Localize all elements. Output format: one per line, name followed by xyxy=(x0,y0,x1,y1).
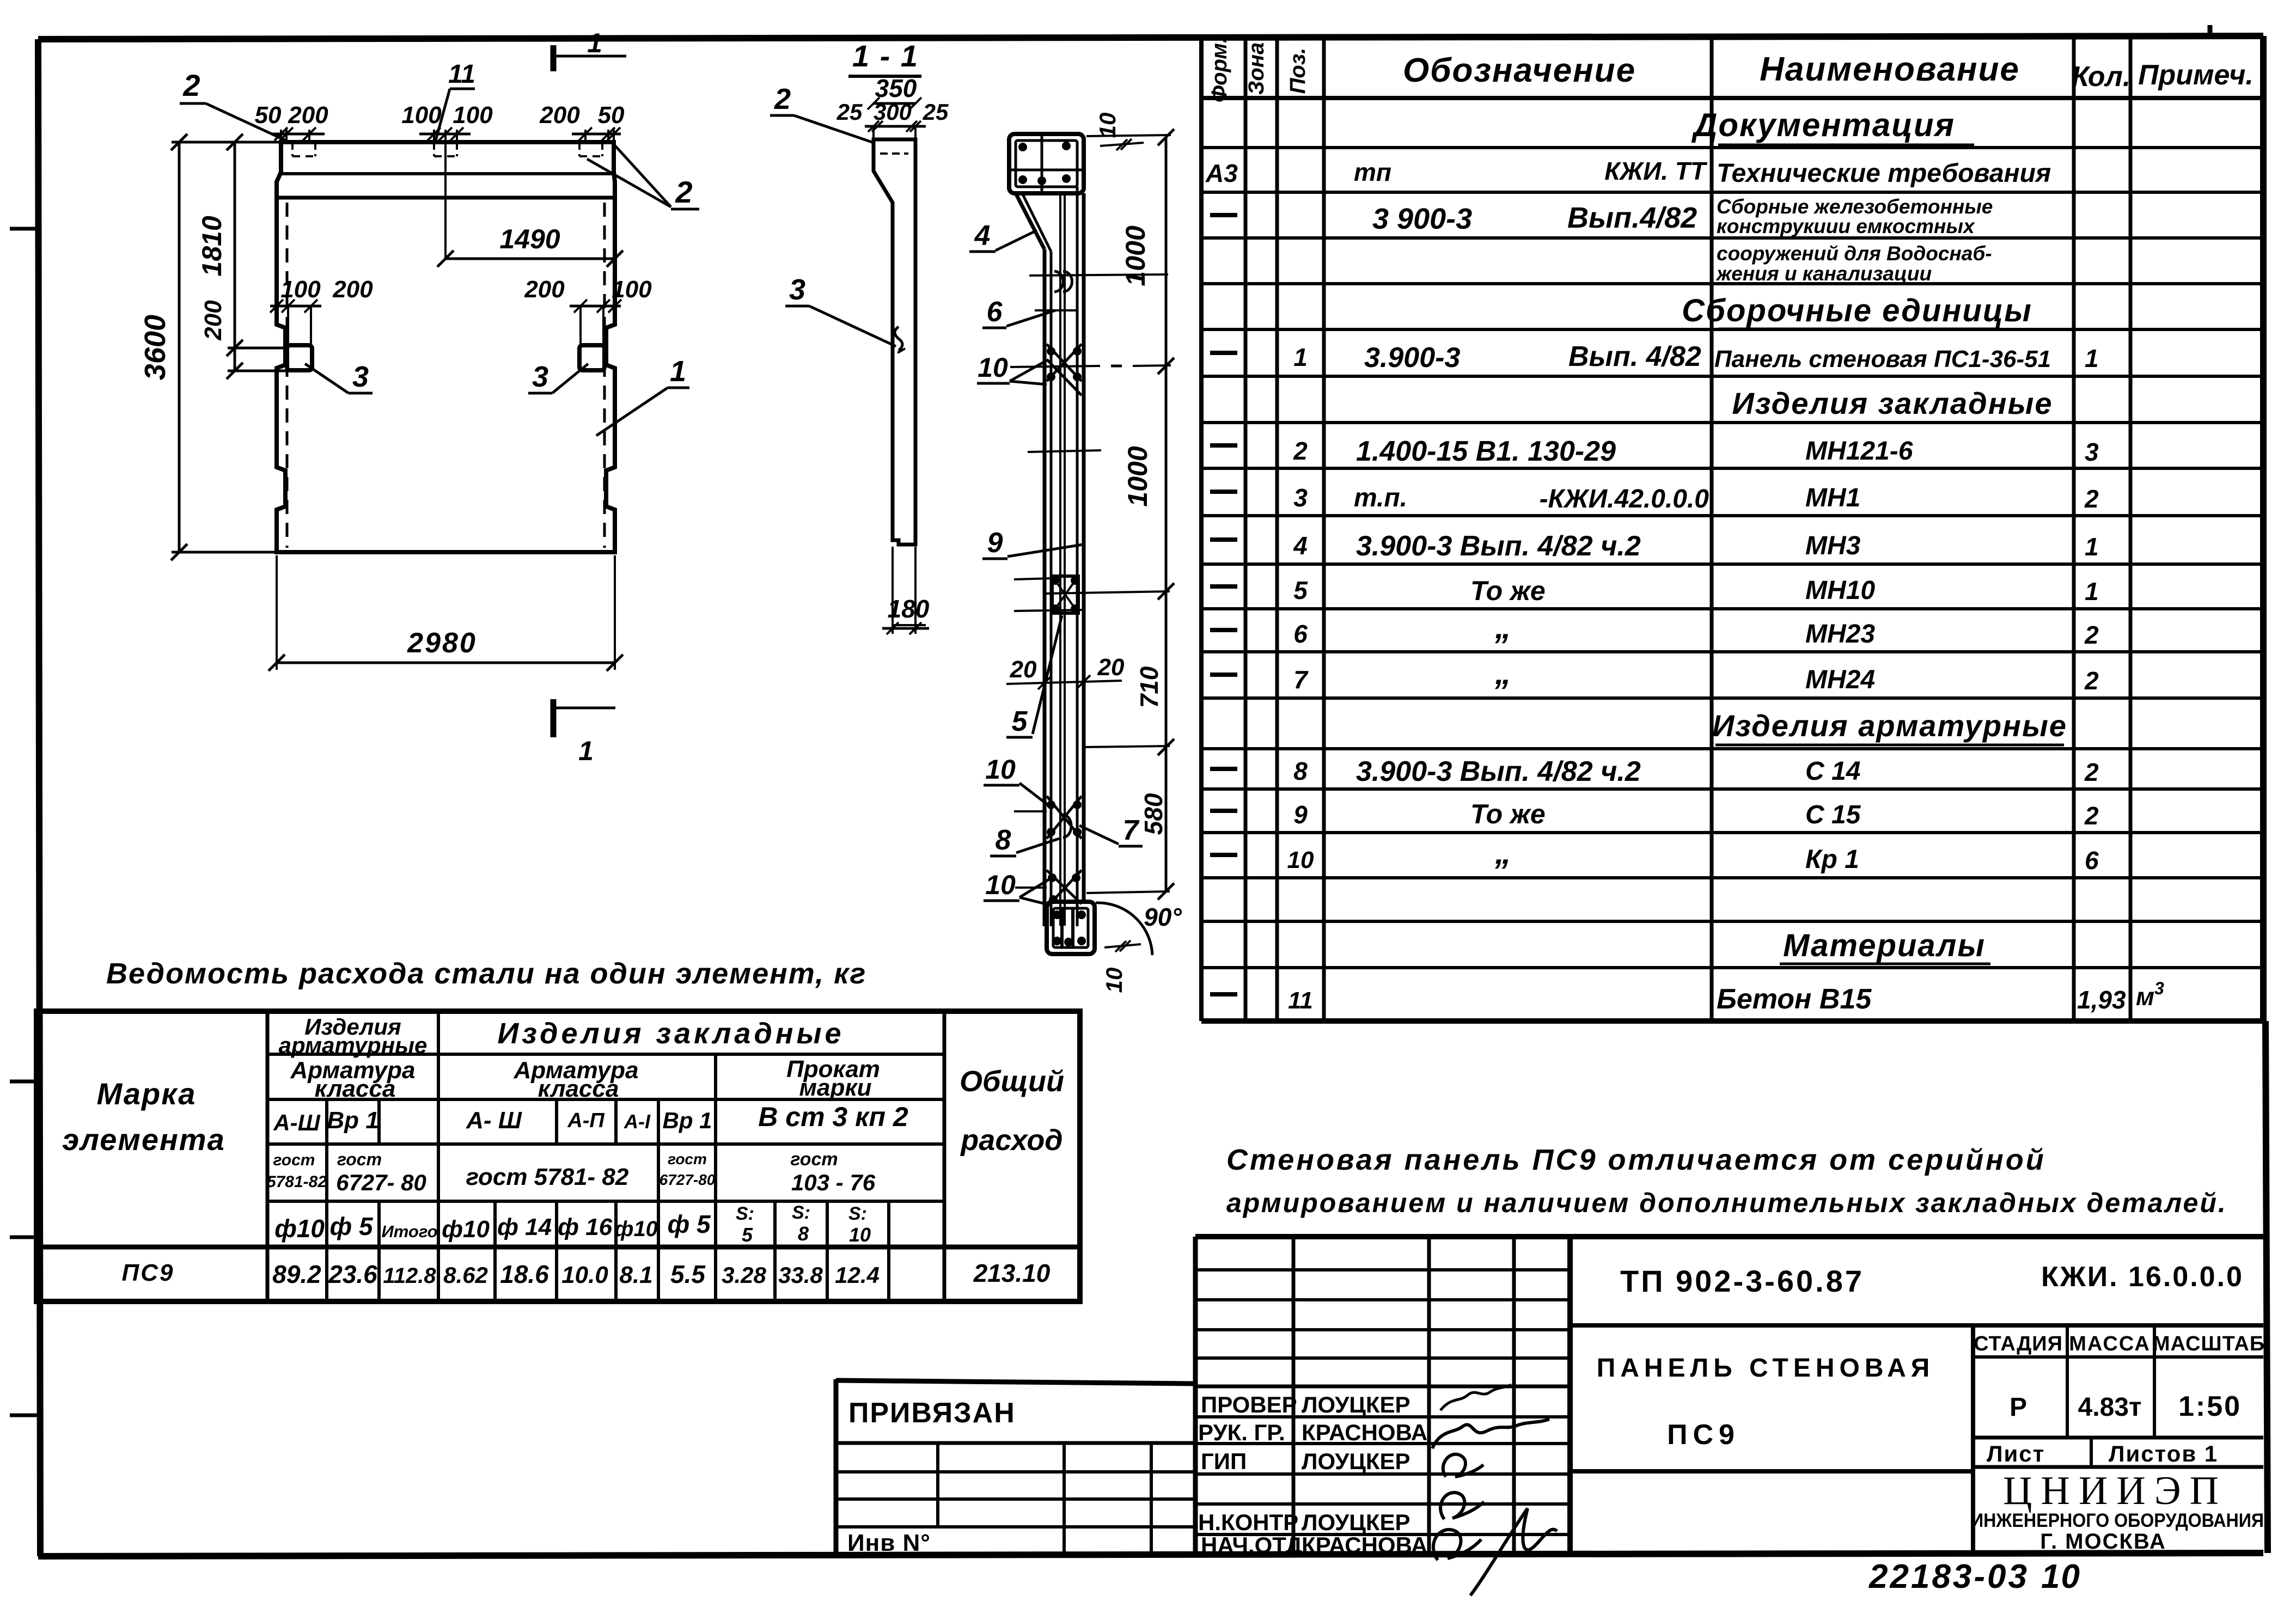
label 2 top-left with leader xyxy=(180,68,287,141)
svg-text:112.8: 112.8 xyxy=(383,1264,436,1288)
spec row: 3 900-3 Вып.4/82 Сборные железобетонные xyxy=(1210,195,1993,237)
svg-text:ф 5: ф 5 xyxy=(329,1212,373,1240)
svg-text:1490: 1490 xyxy=(499,224,560,254)
dimension 2980 xyxy=(268,555,623,671)
svg-text:S:: S: xyxy=(736,1203,754,1224)
svg-text:Сборные железобетонные: Сборные железобетонные xyxy=(1717,195,1993,218)
svg-text:„: „ xyxy=(1494,834,1511,871)
spec row 6: МН23 xyxy=(1210,609,2099,649)
svg-text:2: 2 xyxy=(182,68,200,102)
spec row: Изделия закладные section header xyxy=(1732,386,2053,420)
spec row 1: Панель стеновая ПС1-36-51 xyxy=(1210,341,2099,374)
svg-text:Бетон В15: Бетон В15 xyxy=(1717,983,1872,1015)
svg-text:5781-82: 5781-82 xyxy=(267,1173,327,1191)
svg-text:КЖИ. ТТ: КЖИ. ТТ xyxy=(1604,157,1708,185)
spec row: Изделия арматурные section header xyxy=(1712,708,2067,745)
svg-text:3600: 3600 xyxy=(139,315,172,380)
section mark 1 (bottom) xyxy=(553,699,615,766)
specification table grid xyxy=(1201,36,2263,1021)
svg-text:8: 8 xyxy=(798,1222,809,1245)
svg-text:1 - 1: 1 - 1 xyxy=(852,39,919,73)
svg-text:гост: гост xyxy=(273,1151,315,1169)
svg-text:6727-80: 6727-80 xyxy=(660,1171,716,1188)
centerline at first 1000 tick xyxy=(1010,365,1171,367)
dimensions 25 300 25 xyxy=(836,99,949,139)
svg-text:Примеч.: Примеч. xyxy=(2138,59,2254,91)
svg-text:3: 3 xyxy=(532,360,548,393)
svg-text:Г. МОСКВА: Г. МОСКВА xyxy=(2040,1530,2166,1554)
svg-text:МН24: МН24 xyxy=(1805,665,1875,694)
spec row 3: МН1 xyxy=(1210,484,2099,513)
svg-text:22183-03: 22183-03 xyxy=(1868,1558,2029,1595)
cross ties поз.10 lower cluster xyxy=(1015,870,1082,905)
svg-text:Изделия закладные: Изделия закладные xyxy=(497,1017,844,1050)
top dimension chain 50 200 / 100 100 / 200 50 xyxy=(255,102,625,142)
svg-text:213.10: 213.10 xyxy=(973,1259,1051,1287)
section 1-1 profile xyxy=(874,139,915,545)
svg-text:7: 7 xyxy=(1123,815,1140,846)
svg-text:Общий: Общий xyxy=(960,1065,1064,1098)
svg-text:100: 100 xyxy=(401,102,442,129)
svg-text:ЦНИИЭП: ЦНИИЭП xyxy=(2003,1469,2227,1513)
spec row: Сборочные единицы section header xyxy=(1682,293,2032,329)
svg-text:Листов 1: Листов 1 xyxy=(2109,1441,2218,1466)
svg-text:ф 5: ф 5 xyxy=(667,1210,711,1238)
svg-text:5.5: 5.5 xyxy=(670,1260,706,1288)
svg-text:гост 5781- 82: гост 5781- 82 xyxy=(466,1164,629,1190)
cross ties поз.10 middle cluster xyxy=(1014,796,1082,839)
elevation dimension line right xyxy=(1084,129,1174,900)
svg-text:Р: Р xyxy=(2010,1393,2027,1422)
svg-text:ф 16: ф 16 xyxy=(558,1214,613,1240)
svg-text:2: 2 xyxy=(675,175,692,209)
svg-text:Наименование: Наименование xyxy=(1760,51,2020,88)
reinforcement elevation: taper and shaft xyxy=(1016,187,1084,926)
svg-text:3: 3 xyxy=(2154,979,2164,998)
svg-text:33.8: 33.8 xyxy=(778,1262,823,1288)
svg-text:7: 7 xyxy=(1293,665,1309,694)
svg-text:11: 11 xyxy=(448,60,475,89)
svg-text:2: 2 xyxy=(2084,758,2099,786)
label 11 with leader xyxy=(436,60,475,140)
svg-text:5: 5 xyxy=(1012,706,1028,737)
label 7 with leader xyxy=(1079,815,1143,846)
svg-text:10: 10 xyxy=(1095,113,1120,138)
svg-text:МАСШТАБ: МАСШТАБ xyxy=(2153,1332,2265,1355)
svg-text:10.0: 10.0 xyxy=(561,1262,608,1288)
svg-text:Вр 1: Вр 1 xyxy=(662,1108,712,1133)
dimension 3600 xyxy=(139,134,281,560)
title block: привязан box xyxy=(836,1379,1195,1556)
svg-text:тп: тп xyxy=(1354,158,1391,186)
svg-text:Обозначение: Обозначение xyxy=(1403,52,1636,89)
svg-text:ПС9: ПС9 xyxy=(1667,1419,1740,1451)
svg-text:ПАНЕЛЬ СТЕНОВАЯ: ПАНЕЛЬ СТЕНОВАЯ xyxy=(1597,1354,1935,1383)
svg-text:Сборочные единицы: Сборочные единицы xyxy=(1682,293,2032,328)
svg-text:1,93: 1,93 xyxy=(2077,986,2126,1014)
svg-text:сооружений для Водоснаб-: сооружений для Водоснаб- xyxy=(1717,242,1992,265)
svg-text:ф10: ф10 xyxy=(442,1216,490,1243)
svg-text:23.6: 23.6 xyxy=(328,1260,377,1288)
label 2 section with leader xyxy=(770,83,874,143)
svg-text:2: 2 xyxy=(2084,802,2099,830)
svg-text:ТП 902-3-60.87: ТП 902-3-60.87 xyxy=(1620,1264,1864,1298)
svg-text:200: 200 xyxy=(288,102,328,129)
svg-text:То же: То же xyxy=(1470,576,1546,606)
svg-text:8.1: 8.1 xyxy=(619,1262,652,1288)
svg-text:6727- 80: 6727- 80 xyxy=(336,1170,426,1195)
spec row: Технические требования xyxy=(1205,157,2051,188)
svg-text:50: 50 xyxy=(598,102,625,129)
svg-text:марки: марки xyxy=(799,1074,871,1101)
title block: лист / листов xyxy=(1973,1438,2263,1467)
steel table grid xyxy=(36,1011,1080,1301)
svg-text:А-П: А-П xyxy=(567,1109,604,1132)
svg-text:расход: расход xyxy=(960,1124,1062,1157)
svg-text:1: 1 xyxy=(2085,344,2099,372)
embedded plates on top edge (dashed) xyxy=(292,143,602,156)
svg-text:3: 3 xyxy=(2085,438,2099,466)
title block: signatures (handwritten squiggles) xyxy=(1432,1385,1557,1595)
svg-text:100: 100 xyxy=(280,276,321,303)
label 8 with leader xyxy=(990,824,1059,856)
dimension 1490 xyxy=(437,142,623,267)
svg-text:КЖИ. 16.0.0.0: КЖИ. 16.0.0.0 xyxy=(2041,1261,2244,1293)
svg-text:5: 5 xyxy=(1293,576,1308,604)
svg-text:гост: гост xyxy=(668,1151,707,1167)
spec row 10: Кр1 xyxy=(1210,834,2099,875)
svg-text:жения и канализации: жения и канализации xyxy=(1715,262,1932,285)
svg-text:ПРИВЯЗАН: ПРИВЯЗАН xyxy=(848,1397,1016,1429)
svg-text:100: 100 xyxy=(612,276,652,303)
svg-text:МН23: МН23 xyxy=(1805,620,1875,649)
svg-text:6: 6 xyxy=(987,296,1003,328)
svg-text:3: 3 xyxy=(789,273,805,306)
title block: panel name xyxy=(1570,1325,1973,1556)
svg-text:ф10: ф10 xyxy=(274,1214,325,1243)
label 10 third xyxy=(984,870,1050,905)
svg-text:6: 6 xyxy=(2085,846,2099,875)
inventory number bottom xyxy=(1868,1558,2081,1595)
steel table headers xyxy=(62,1014,1064,1246)
dimension 350 xyxy=(868,74,921,109)
svg-text:90°: 90° xyxy=(1144,903,1182,931)
svg-text:ф10: ф10 xyxy=(614,1217,658,1241)
svg-text:180: 180 xyxy=(888,595,930,623)
svg-text:200: 200 xyxy=(332,276,373,303)
spec row 2: МН121-6 xyxy=(1210,436,2099,467)
svg-text:10: 10 xyxy=(985,870,1016,900)
angle 90 deg xyxy=(1096,903,1182,955)
svg-text:20: 20 xyxy=(1097,654,1125,681)
svg-text:1000: 1000 xyxy=(1120,225,1151,286)
svg-text:300: 300 xyxy=(874,99,912,125)
svg-text:-КЖИ.42.0.0.0: -КЖИ.42.0.0.0 xyxy=(1540,485,1709,513)
dim 10 bottom xyxy=(1101,940,1141,993)
svg-text:200: 200 xyxy=(200,300,227,341)
svg-text:S:: S: xyxy=(848,1203,867,1224)
svg-text:2: 2 xyxy=(2084,667,2099,695)
label 2 right with leaders xyxy=(587,145,699,209)
svg-text:89.2: 89.2 xyxy=(272,1260,321,1288)
svg-text:Кр 1: Кр 1 xyxy=(1805,845,1859,874)
svg-text:3: 3 xyxy=(1293,484,1308,512)
spec table headers xyxy=(1207,37,2254,102)
svg-text:2: 2 xyxy=(774,83,791,115)
svg-text:4: 4 xyxy=(1293,531,1308,560)
embedded box поз.5 xyxy=(1014,450,1170,613)
svg-text:3.900-3: 3.900-3 xyxy=(1364,342,1460,374)
svg-text:Технические требования: Технические требования xyxy=(1717,159,2051,188)
svg-text:То же: То же xyxy=(1470,799,1546,829)
svg-text:„: „ xyxy=(1494,655,1511,691)
svg-text:3.900-3 Вып. 4/82 ч.2: 3.900-3 Вып. 4/82 ч.2 xyxy=(1356,756,1641,787)
svg-text:100: 100 xyxy=(453,102,493,129)
svg-text:ИНЖЕНЕРНОГО ОБОРУДОВАНИЯ: ИНЖЕНЕРНОГО ОБОРУДОВАНИЯ xyxy=(1971,1511,2264,1532)
label 1 with leader xyxy=(596,355,689,436)
spec row 5: МН10 xyxy=(1210,576,2099,606)
svg-text:12.4: 12.4 xyxy=(835,1262,880,1288)
svg-text:МН3: МН3 xyxy=(1805,531,1861,560)
svg-text:МН1: МН1 xyxy=(1805,484,1860,512)
svg-text:3: 3 xyxy=(352,360,369,393)
svg-text:А- Ш: А- Ш xyxy=(466,1107,522,1134)
svg-text:200: 200 xyxy=(539,102,580,129)
svg-text:конструкиии емкостных: конструкиии емкостных xyxy=(1717,215,1975,237)
svg-text:РУК. ГР.: РУК. ГР. xyxy=(1198,1420,1285,1445)
spec row 8: С14 xyxy=(1210,756,2099,787)
svg-text:1: 1 xyxy=(578,736,594,766)
svg-text:3 900-3: 3 900-3 xyxy=(1372,203,1472,235)
svg-text:25: 25 xyxy=(836,99,863,125)
dim 10 top xyxy=(1095,113,1144,150)
svg-text:А-Ш: А-Ш xyxy=(273,1110,320,1135)
svg-text:В ст 3 кп 2: В ст 3 кп 2 xyxy=(758,1102,908,1132)
panel inner dashed face lines xyxy=(287,203,604,548)
label 5 with leader xyxy=(1006,615,1062,737)
svg-text:3.900-3 Вып. 4/82 ч.2: 3.900-3 Вып. 4/82 ч.2 xyxy=(1356,530,1641,562)
svg-text:ф 14: ф 14 xyxy=(497,1214,552,1240)
svg-text:Марка: Марка xyxy=(97,1077,197,1111)
svg-text:10: 10 xyxy=(985,754,1016,785)
spec row: Материалы section header xyxy=(1780,928,1990,964)
svg-text:ЛОУЦКЕР: ЛОУЦКЕР xyxy=(1302,1448,1410,1474)
steel table data row ПС9 xyxy=(122,1259,1051,1288)
title block: signature names xyxy=(1198,1392,1427,1558)
svg-text:т.п.: т.п. xyxy=(1354,484,1407,512)
svg-text:Изделия закладные: Изделия закладные xyxy=(1732,386,2053,420)
svg-text:10: 10 xyxy=(1287,847,1314,873)
svg-text:МН121-6: МН121-6 xyxy=(1805,437,1913,466)
svg-text:580: 580 xyxy=(1139,793,1168,835)
svg-text:Панель стеновая ПС1-36-51: Панель стеновая ПС1-36-51 xyxy=(1714,346,2051,372)
svg-text:25: 25 xyxy=(923,99,949,125)
dimension 180 xyxy=(882,547,930,634)
spec row 7: МН24 xyxy=(1210,655,2099,695)
svg-text:350: 350 xyxy=(875,74,917,102)
svg-text:Н.КОНТР: Н.КОНТР xyxy=(1198,1509,1298,1535)
svg-text:S:: S: xyxy=(792,1202,810,1223)
spec row 11: Бетон В15 xyxy=(1210,979,2164,1015)
svg-text:10: 10 xyxy=(978,352,1008,383)
svg-text:ГИП: ГИП xyxy=(1201,1448,1247,1474)
svg-text:10: 10 xyxy=(2041,1558,2081,1595)
label 9 with leader xyxy=(982,527,1083,559)
svg-text:ПРОВЕР: ПРОВЕР xyxy=(1201,1392,1297,1417)
svg-text:ЛОУЦКЕР: ЛОУЦКЕР xyxy=(1302,1392,1410,1417)
svg-text:ПС9: ПС9 xyxy=(122,1260,175,1286)
panel front view outline xyxy=(277,142,615,552)
spec row 9: С15 xyxy=(1210,799,2099,830)
svg-text:„: „ xyxy=(1494,609,1511,645)
svg-text:Лист: Лист xyxy=(1987,1441,2045,1466)
svg-text:103 - 76: 103 - 76 xyxy=(791,1170,876,1195)
svg-text:2: 2 xyxy=(1293,437,1308,465)
svg-text:8: 8 xyxy=(1293,757,1308,785)
svg-text:класса: класса xyxy=(315,1075,396,1102)
svg-text:2980: 2980 xyxy=(407,627,477,659)
svg-text:элемента: элемента xyxy=(62,1122,225,1157)
spec row 4: МН3 xyxy=(1210,530,2099,562)
svg-text:4.83т: 4.83т xyxy=(2078,1393,2142,1422)
title block: ЦНИИЭП institute xyxy=(1971,1469,2264,1554)
svg-text:1000: 1000 xyxy=(1122,446,1153,506)
svg-text:КРАСНОВА: КРАСНОВА xyxy=(1302,1532,1427,1558)
title block: document codes xyxy=(1570,1261,2263,1325)
svg-text:Итого: Итого xyxy=(381,1222,437,1241)
svg-text:1: 1 xyxy=(670,355,686,388)
svg-text:10: 10 xyxy=(1101,968,1127,993)
svg-text:гост: гост xyxy=(337,1150,382,1169)
svg-text:18.6: 18.6 xyxy=(500,1260,549,1288)
svg-text:1.400-15 В1. 130-29: 1.400-15 В1. 130-29 xyxy=(1356,436,1616,467)
dims 20 20 xyxy=(1006,654,1125,689)
reinforcement elevation: top box xyxy=(1009,134,1084,193)
cross ties поз.10 upper xyxy=(1047,344,1082,395)
labels 3 with leaders xyxy=(305,360,588,393)
svg-text:1: 1 xyxy=(1293,343,1308,371)
svg-text:710: 710 xyxy=(1135,666,1163,708)
svg-text:А-I: А-I xyxy=(624,1110,651,1133)
svg-text:9: 9 xyxy=(1293,800,1308,829)
svg-text:арматурные: арматурные xyxy=(279,1032,428,1058)
svg-text:3.28: 3.28 xyxy=(722,1262,766,1288)
svg-text:1: 1 xyxy=(2085,577,2099,606)
svg-text:С 14: С 14 xyxy=(1805,757,1860,786)
svg-text:8.62: 8.62 xyxy=(443,1262,488,1288)
svg-text:10: 10 xyxy=(849,1224,871,1246)
svg-text:1: 1 xyxy=(587,28,602,58)
svg-text:СТАДИЯ: СТАДИЯ xyxy=(1974,1332,2063,1355)
svg-text:11: 11 xyxy=(1288,987,1313,1014)
svg-text:МАССА: МАССА xyxy=(2069,1332,2151,1355)
svg-text:6: 6 xyxy=(1293,620,1308,648)
svg-text:9: 9 xyxy=(987,527,1003,559)
labels 4 6 10 on left of elevation xyxy=(969,220,1055,384)
svg-text:ЛОУЦКЕР: ЛОУЦКЕР xyxy=(1302,1509,1410,1535)
svg-text:Вып.4/82: Вып.4/82 xyxy=(1567,201,1697,234)
section mark 1 (top) xyxy=(553,28,626,71)
label 10 second xyxy=(984,754,1048,805)
note about panel ПС9 xyxy=(1226,1144,2227,1218)
spec row: Документация section header xyxy=(1691,107,1974,145)
svg-text:С 15: С 15 xyxy=(1805,800,1861,829)
title block: middle grid xyxy=(1195,1237,2263,1556)
svg-text:Вып. 4/82: Вып. 4/82 xyxy=(1568,341,1701,372)
svg-text:Изделия арматурные: Изделия арматурные xyxy=(1712,708,2067,743)
dimensions 100 200 over squares xyxy=(270,276,652,346)
svg-text:1810: 1810 xyxy=(197,216,227,276)
svg-text:2: 2 xyxy=(2084,485,2099,513)
svg-text:4: 4 xyxy=(974,220,991,252)
svg-text:5: 5 xyxy=(742,1224,753,1246)
svg-text:А3: А3 xyxy=(1205,159,1238,187)
svg-text:50: 50 xyxy=(255,102,282,129)
svg-text:Инв N°: Инв N° xyxy=(847,1530,931,1556)
svg-text:1:50: 1:50 xyxy=(2178,1391,2242,1422)
steel consumption table title xyxy=(106,957,866,990)
svg-text:Стеновая панель ПС9 отличается: Стеновая панель ПС9 отличается от серийн… xyxy=(1226,1144,2046,1176)
svg-text:2: 2 xyxy=(2084,621,2099,649)
svg-text:Ведомость расхода стали на оди: Ведомость расхода стали на один элемент,… xyxy=(106,957,866,990)
svg-text:Поз.: Поз. xyxy=(1286,48,1310,94)
svg-text:200: 200 xyxy=(524,276,565,303)
spec row: сооружений для водоснабжения xyxy=(1715,242,1992,285)
label 3 section with leader xyxy=(785,273,896,346)
svg-text:МН10: МН10 xyxy=(1805,576,1875,605)
svg-text:гост: гост xyxy=(790,1149,838,1170)
svg-text:Кол.: Кол. xyxy=(2072,61,2131,93)
svg-text:класса: класса xyxy=(538,1075,619,1102)
tie bracket поз.6 xyxy=(1029,271,1168,310)
svg-text:Документация: Документация xyxy=(1691,107,1955,143)
svg-text:Материалы: Материалы xyxy=(1783,928,1986,963)
svg-text:20: 20 xyxy=(1010,656,1037,683)
reinforcement elevation: bottom box xyxy=(1047,902,1095,954)
svg-text:Зона: Зона xyxy=(1244,42,1268,95)
svg-text:КРАСНОВА: КРАСНОВА xyxy=(1302,1420,1427,1445)
svg-text:армированием и наличием дополн: армированием и наличием дополнительных з… xyxy=(1226,1188,2227,1218)
svg-text:Вр 1: Вр 1 xyxy=(327,1107,378,1134)
svg-text:НАЧ.ОТД: НАЧ.ОТД xyxy=(1201,1532,1302,1558)
embedded plates поз.3 (squares) xyxy=(287,345,604,370)
svg-text:8: 8 xyxy=(996,824,1011,856)
svg-text:м: м xyxy=(2136,982,2154,1011)
title block: стадия масса масштаб xyxy=(1973,1325,2265,1438)
svg-text:1: 1 xyxy=(2085,533,2099,561)
dimension 1810 xyxy=(197,134,288,356)
section 1-1 title xyxy=(848,39,921,76)
svg-text:Форм.: Форм. xyxy=(1207,37,1231,102)
dimension 200 (vertical) xyxy=(200,300,288,379)
